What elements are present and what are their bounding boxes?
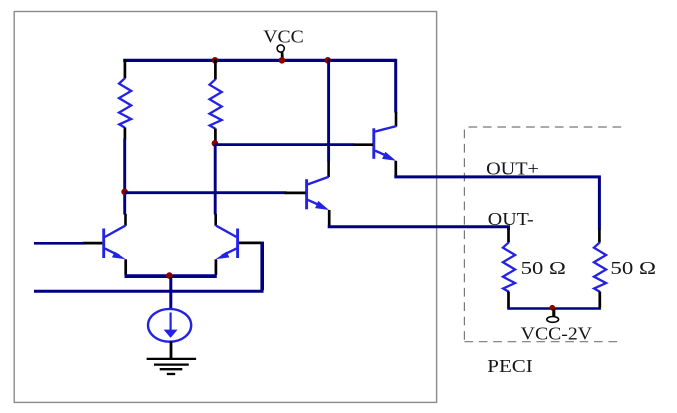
wire termination bottom bbox=[507, 307, 601, 310]
wire OUT+ bbox=[394, 177, 599, 230]
svg-text:50 Ω: 50 Ω bbox=[610, 258, 656, 278]
wire current source to ground bbox=[170, 341, 173, 358]
transistor Q4 collector black stub bbox=[327, 161, 330, 177]
wire OUT- bbox=[328, 227, 509, 230]
resistor RT2 (50 ohm right) bbox=[594, 242, 606, 291]
resistor R2 bbox=[210, 79, 222, 128]
ground bbox=[147, 359, 197, 374]
resistor R2 top stub bbox=[214, 59, 217, 80]
chip boundary box bbox=[14, 12, 436, 403]
wire Q2 emitter black stub bbox=[215, 259, 218, 275]
resistor RT1 bottom stub bbox=[507, 292, 510, 309]
node rail-Q4 collector junction bbox=[325, 57, 332, 64]
wire tail to current source bbox=[169, 277, 172, 310]
node rail-VCC junction bbox=[279, 57, 286, 64]
svg-text:50 Ω: 50 Ω bbox=[521, 258, 566, 278]
VCC rail bbox=[123, 59, 396, 62]
resistor R2 bottom stub bbox=[214, 129, 217, 143]
resistor R1 bbox=[119, 78, 131, 127]
wire Q2 base black stub bbox=[239, 242, 262, 245]
transistor Q3 collector black stub bbox=[395, 112, 398, 127]
wire R1 to Q1 collector bbox=[123, 139, 126, 215]
node tail junction bbox=[166, 272, 173, 279]
wire input IN1 bbox=[34, 242, 84, 245]
current source I1 bbox=[148, 309, 191, 342]
resistor RT2 bottom stub bbox=[598, 292, 601, 309]
svg-text:OUT-: OUT- bbox=[488, 209, 534, 229]
resistor R1 bottom stub bbox=[124, 127, 127, 139]
resistor RT1 top stub bbox=[507, 229, 510, 243]
node R2 bottom junction bbox=[212, 140, 219, 147]
wire Q3 base black stub bbox=[353, 143, 373, 146]
node VCC-2V junction bbox=[550, 305, 556, 311]
node rail-R2 junction bbox=[212, 57, 219, 64]
wire Q3 emitter black stub bbox=[394, 161, 397, 176]
resistor RT2 top stub bbox=[598, 229, 601, 243]
wire Q4 collector to rail bbox=[327, 59, 330, 162]
svg-text:OUT+: OUT+ bbox=[486, 159, 539, 179]
wire Q4 emitter black stub bbox=[328, 210, 331, 226]
svg-text:PECI: PECI bbox=[487, 356, 533, 376]
wire common emitter rail bbox=[125, 274, 217, 278]
transistor Q4 bbox=[307, 177, 329, 210]
transistor Q3 bbox=[374, 126, 396, 159]
svg-text:VCC: VCC bbox=[263, 27, 304, 47]
svg-text:VCC-2V: VCC-2V bbox=[521, 323, 593, 343]
wire Q1 emitter black stub bbox=[124, 259, 127, 275]
transistor Q1 collector black stub bbox=[124, 214, 127, 226]
wire R2 node down to Q2 collector bbox=[214, 145, 217, 215]
wire Q4 base black stub bbox=[285, 192, 306, 195]
wire R2 node to Q3 base bbox=[215, 143, 354, 146]
wire rail right corner down to Q3 collector bbox=[394, 59, 397, 113]
wire Q1 collector node to Q4 base bbox=[125, 191, 287, 194]
transistor Q1 bbox=[104, 226, 126, 258]
wire Q1 base black stub bbox=[83, 242, 103, 245]
transistor Q2 collector black stub bbox=[214, 214, 217, 226]
transistor Q2 bbox=[216, 226, 238, 258]
resistor RT1 (50 ohm left) bbox=[503, 242, 515, 291]
node Q1 collector junction bbox=[121, 189, 128, 196]
VCC-2V terminal bbox=[552, 310, 555, 317]
wire input IN2 elbow bbox=[260, 242, 264, 291]
resistor R1 top stub bbox=[124, 59, 127, 78]
PECI load dashed box bbox=[464, 127, 623, 342]
VCC terminal bbox=[277, 45, 284, 52]
